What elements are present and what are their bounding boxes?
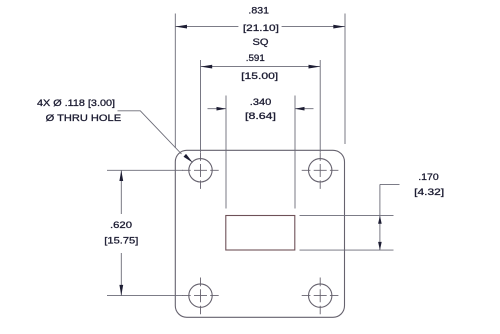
svg-text:.340: .340 — [250, 97, 272, 108]
extension line plate right (.831) — [344, 14, 346, 145]
hole H2 top-right — [309, 159, 332, 182]
svg-text:SQ: SQ — [253, 37, 269, 48]
svg-text:[4.32]: [4.32] — [414, 187, 444, 198]
dimension leader tick .170 — [380, 183, 400, 185]
extension line top hole center (.620) — [107, 169, 183, 171]
center mark H1 — [182, 152, 219, 189]
arrowhead .591 right — [309, 65, 321, 69]
hole H3 bottom-left — [189, 284, 212, 307]
center mark H2 — [302, 152, 339, 189]
dimension line .831 left segment — [175, 26, 238, 28]
extension line slot bottom (.170) — [300, 249, 394, 251]
svg-text:4X Ø .118 [3.00]: 4X Ø .118 [3.00] — [37, 98, 115, 109]
dimension line .620 upper segment — [120, 170, 122, 214]
extension line hole left center (.591) — [200, 60, 202, 152]
dimension line .831 right segment — [282, 26, 345, 28]
extension line hole right center (.591) — [319, 60, 321, 152]
svg-text:[21.10]: [21.10] — [243, 23, 279, 34]
dimension line .620 lower segment — [120, 253, 122, 296]
svg-text:[15.00]: [15.00] — [241, 71, 278, 82]
extension line slot left (.340) — [225, 96, 227, 209]
arrowhead .340 right (outside pointing left) — [295, 107, 305, 111]
dimension line .170 vertical — [379, 184, 381, 250]
dimension tail .340 left — [208, 108, 227, 110]
arrowhead .170 bottom — [378, 242, 382, 250]
extension line bottom hole center (.620) — [107, 295, 183, 297]
center mark H3 — [182, 278, 219, 315]
svg-text:.620: .620 — [110, 220, 132, 231]
center mark H4 — [302, 278, 339, 315]
hole H1 top-left — [189, 159, 212, 182]
arrowhead .340 left (outside pointing right) — [217, 107, 227, 111]
arrowhead .620 top — [119, 170, 123, 181]
svg-text:.591: .591 — [246, 53, 265, 64]
extension line slot right (.340) — [294, 96, 296, 209]
arrowhead .591 left — [201, 65, 213, 69]
slot aperture — [226, 216, 295, 251]
arrowhead leader note — [184, 154, 193, 163]
dimension line .591 — [201, 66, 321, 68]
svg-text:Ø THRU HOLE: Ø THRU HOLE — [46, 113, 122, 124]
svg-text:.170: .170 — [418, 172, 439, 183]
arrowhead .620 bottom — [119, 285, 123, 296]
dimension tail .340 right — [295, 108, 314, 110]
leader line note — [118, 111, 182, 154]
arrowhead .831 right — [333, 25, 345, 29]
svg-text:.831: .831 — [248, 6, 269, 17]
arrowhead .831 left — [175, 25, 187, 29]
svg-text:[15.75]: [15.75] — [104, 236, 138, 247]
arrowhead .170 top — [378, 216, 382, 224]
svg-text:[8.64]: [8.64] — [245, 111, 276, 122]
plate outline — [175, 150, 344, 317]
extension line slot top (.170) — [300, 215, 394, 217]
hole H4 bottom-right — [309, 284, 332, 307]
extension line plate left (.831) — [174, 14, 176, 149]
